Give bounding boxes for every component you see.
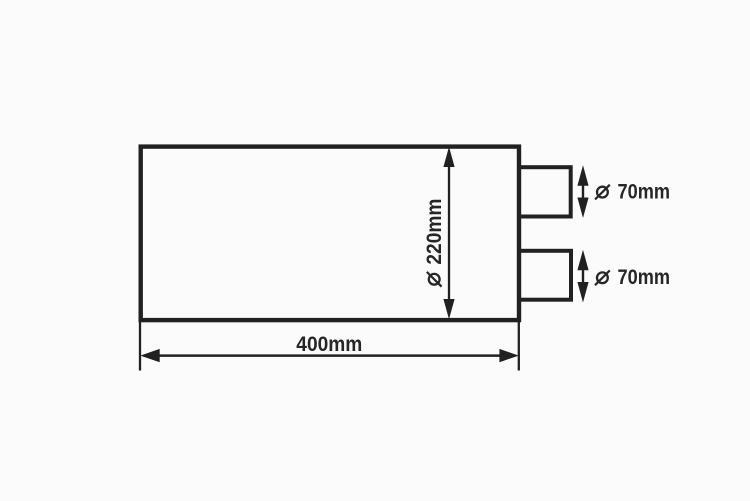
svg-text:220mm: 220mm bbox=[423, 199, 446, 265]
diameter symbol of top 70mm label bbox=[595, 185, 610, 200]
top outlet pipe bbox=[519, 167, 571, 216]
diameter symbol of bottom 70mm label bbox=[595, 270, 610, 285]
diameter symbol of 220mm label (rotated) bbox=[427, 272, 442, 287]
400mm dimension line with arrows bbox=[140, 349, 519, 362]
bottom pipe double arrow (70mm) bbox=[577, 250, 588, 303]
400mm dimension: left extension line bbox=[139, 322, 141, 371]
top pipe double arrow (70mm) bbox=[577, 165, 588, 218]
svg-text:70mm: 70mm bbox=[618, 266, 671, 289]
svg-text:400mm: 400mm bbox=[296, 333, 362, 356]
400mm dimension: right extension line bbox=[518, 322, 520, 371]
muffler body rectangle bbox=[141, 147, 519, 321]
vertical dimension arrow (220mm) bbox=[443, 147, 454, 319]
svg-text:70mm: 70mm bbox=[618, 181, 671, 204]
bottom outlet pipe bbox=[519, 251, 571, 300]
